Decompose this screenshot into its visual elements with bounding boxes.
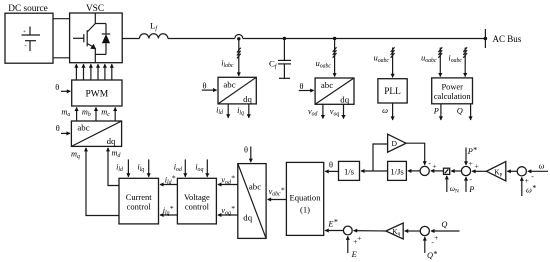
wire branch to damping D [373,144,388,171]
wire inductor to current tap [168,38,235,40]
power calculation box [432,78,473,104]
svg-text:Power: Power [441,83,463,92]
wire voq output [330,104,344,118]
diode inside VSC [95,24,110,55]
wire 1/Js to 1/s [361,170,388,172]
svg-text:dq: dq [107,136,116,146]
wire uoabc measurement to abc-dq [316,39,337,77]
inertia block 1/Js [388,161,407,180]
wire S2 to division box [451,170,461,172]
svg-text:Current: Current [126,192,153,202]
svg-text:+: + [357,233,361,242]
svg-text:+: + [23,29,26,35]
svg-text:E: E [351,250,357,259]
wire vod* reference [218,173,238,185]
wire Kp to S2 [472,170,486,172]
wire ild input [116,159,128,176]
svg-text:dq: dq [243,213,252,223]
wire P input [466,177,474,194]
svg-text:(1): (1) [300,205,310,215]
gate arrows PWM to VSC [76,64,111,80]
svg-text:Voltage: Voltage [184,192,210,202]
wire omega input [528,162,548,172]
PLL box [378,79,407,103]
wire E* to equation [325,218,343,231]
wire Q* input [425,237,438,260]
svg-text:P: P [468,185,474,194]
svg-text:dq: dq [243,94,252,104]
wire uoabc to power calculation [421,47,442,76]
svg-text:Equation: Equation [289,193,321,203]
svg-text:AC Bus: AC Bus [493,34,522,44]
wire ilabc measurement with three-phase slashes [221,39,240,76]
svg-text:abc: abc [321,80,333,90]
voltage control box [177,178,216,224]
node theta input PWM [55,83,70,92]
svg-text:abc: abc [249,181,261,191]
division block [444,168,450,174]
dq-abc modulation block [71,121,121,146]
wire ild output [216,104,228,118]
wire mb [82,108,96,122]
wire mq from current control [71,148,119,216]
svg-text:DC source: DC source [8,4,48,14]
wire iod input [174,159,186,176]
integrator 1/s [339,161,360,180]
AC Bus bar [485,29,521,48]
node uoabc tap dot [333,37,336,40]
gain D triangle [388,134,406,152]
node theta input modulation [56,124,70,133]
gain Kp triangle [486,162,505,182]
svg-text:calculation: calculation [434,92,472,101]
svg-text:θ: θ [300,82,304,91]
wire omegaN input [447,176,459,194]
wire mc [101,108,115,122]
wire E input [348,236,357,259]
wire uoabc to PLL [374,47,395,77]
wire S1 to 1/Js [408,170,420,172]
VSC box [70,4,123,63]
node theta input A [202,82,217,91]
wire ilq input [137,159,148,176]
wire theta from 1/s to equation [325,160,338,171]
node AC bus dot [484,37,488,41]
svg-text:P: P [433,106,439,115]
wire Q input [431,220,460,231]
svg-text:ω: ω [382,106,388,115]
current control box [119,178,159,224]
PWM box [72,80,122,106]
wire ioq input [195,159,207,176]
abc-dq block B for uoabc [315,78,354,105]
capacitor Cf [269,39,291,79]
svg-text:1/Js: 1/Js [390,167,404,177]
wire division box to S1 [431,170,444,172]
svg-text:D: D [392,139,398,148]
svg-text:θ: θ [55,83,59,92]
svg-text:θ: θ [329,160,333,169]
abc-dq block A for ilabc [218,77,256,104]
node Cf tap dot [283,37,286,40]
wire ma [61,108,76,122]
wire Q output [457,104,471,120]
wire DC to VSC bottom [53,57,70,59]
svg-text:abc: abc [77,122,89,132]
summing node S2 [461,159,478,184]
DC source box [5,4,53,63]
wire omega output of PLL [382,103,393,120]
wire vabc* from equation block [268,185,287,199]
transistor IGBT inside VSC [73,13,96,63]
svg-text:+: + [434,233,438,242]
svg-text:+: + [432,162,436,171]
svg-text:abc: abc [223,79,235,89]
wire D output to summing node [406,143,425,165]
svg-text:control: control [185,202,210,212]
svg-text:control: control [127,202,152,212]
svg-text:+: + [353,237,357,246]
wire ilq output [237,104,249,118]
summing node S4 [343,226,361,246]
svg-text:1/s: 1/s [344,167,355,177]
wire S3 to Kp [507,170,517,172]
inductor Lf [139,21,168,39]
svg-text:θ: θ [56,124,60,133]
summing node S5 [420,226,438,246]
gain Kq triangle [386,223,403,239]
wire ioabc to power calculation [448,47,467,76]
battery symbol [22,27,41,52]
wire voq* reference [218,204,238,216]
svg-text:θ: θ [244,146,248,155]
svg-text:PLL: PLL [384,87,401,97]
wire P output [433,104,441,120]
wire P* input [466,145,478,165]
abc-dq tall block [238,164,266,239]
wire md from current control [108,148,121,186]
equation block U1 [286,162,323,235]
wire VSC output [122,38,139,40]
wire tap to Cf node [243,38,486,40]
wire DC to VSC top [53,18,70,20]
wire ild* reference [160,173,177,185]
svg-text:Q: Q [457,107,463,116]
svg-text:θ: θ [203,82,207,91]
svg-text:+: + [469,159,473,168]
node current tap dot [237,37,240,40]
summing node S1 [420,158,437,175]
wire S5 to Kq [405,230,421,232]
svg-text:Q: Q [441,220,447,229]
svg-text:PWM: PWM [85,89,108,99]
wire ilq* reference [160,204,177,216]
svg-text:VSC: VSC [86,4,104,14]
wire Kq to S4 [354,230,386,232]
svg-text:-: - [25,44,27,50]
node theta input tall block [244,146,251,163]
node theta input B [299,82,314,91]
current sensor hop [235,35,243,39]
svg-text:+: + [474,161,478,170]
wire omega* input [522,177,537,196]
wire vod output [308,104,323,118]
svg-text:dq: dq [340,95,349,105]
svg-text:ω: ω [539,162,545,171]
summing node S3 [517,167,534,185]
svg-text:+: + [525,176,529,185]
